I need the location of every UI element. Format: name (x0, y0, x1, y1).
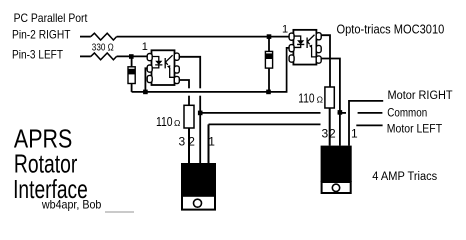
LED inside U2 (293, 36, 304, 47)
wire IC2 pin6 to resistor R2 (319, 35, 330, 87)
capacitor C1 top lead (131, 56, 133, 66)
triac Q2 body (321, 146, 352, 182)
gray underline (105, 211, 134, 213)
capacitor C2 bottom lead (268, 68, 270, 92)
svg-text:Motor LEFT: Motor LEFT (387, 123, 442, 135)
wire motor-right L (349, 101, 383, 146)
resistor 330ohm R-left zigzag (91, 53, 117, 60)
svg-text:PC Parallel Port: PC Parallel Port (14, 11, 88, 25)
svg-text:Rotator: Rotator (14, 151, 78, 179)
svg-text:Pin-3 LEFT: Pin-3 LEFT (12, 47, 64, 61)
LED inside U1 (152, 57, 163, 68)
resistor R2 110ohm body (325, 87, 334, 108)
svg-text:2: 2 (329, 127, 336, 141)
wire triac1 pin1 riser (208, 124, 210, 163)
svg-text:Motor RIGHT: Motor RIGHT (388, 90, 453, 102)
capacitor C1 bottom lead (131, 84, 133, 92)
capacitor C1 (128, 67, 135, 84)
svg-text:Common: Common (387, 108, 427, 120)
wire IC1 pin2 drop to bus (145, 68, 147, 92)
svg-text:1: 1 (282, 23, 288, 35)
svg-text:wb4apr, Bob: wb4apr, Bob (41, 198, 102, 212)
svg-text:Opto-triacs MOC3010: Opto-triacs MOC3010 (337, 23, 445, 37)
triac Q1 body (181, 163, 216, 196)
svg-text:APRS: APRS (14, 126, 72, 154)
capacitor C2 (265, 51, 272, 68)
wire IC2 pin4 to triac2 pin2 (319, 59, 340, 146)
wire net pin2-right to IC2 pin1 (117, 36, 290, 38)
triac element inside U1 (165, 55, 174, 77)
wire common line A right stub (338, 112, 347, 114)
wire common line A left segment (200, 112, 320, 114)
junction C1 to Pin-3 LEFT line (129, 54, 134, 59)
wire ground bus y=92 with IC2 pin2 riser (132, 48, 290, 92)
junction C2 to Pin-2 RIGHT line (267, 34, 272, 39)
svg-text:Pin-2 RIGHT: Pin-2 RIGHT (12, 28, 71, 42)
capacitor C2 top lead (268, 37, 270, 52)
svg-text:330 Ω: 330 Ω (92, 42, 114, 53)
junction common line at Q2 pin2 wire (338, 110, 343, 115)
wire motor-left label dash (356, 124, 382, 126)
resistor R1 110ohm body (184, 105, 194, 128)
opto-triac U1 MOC3010 (147, 50, 179, 85)
svg-text:3: 3 (322, 127, 329, 141)
svg-text:1: 1 (208, 135, 215, 149)
svg-text:110: 110 (156, 114, 173, 129)
wire common label dash (358, 112, 383, 114)
junction U1 pin2 to ground bus (143, 90, 148, 95)
svg-text:1: 1 (351, 127, 358, 141)
wire Pin-2 RIGHT lead (80, 36, 91, 38)
svg-text:110: 110 (298, 90, 314, 105)
triac element inside U2 (307, 35, 316, 57)
wire R2 to triac2 gate pin3 (329, 108, 331, 146)
svg-text:3: 3 (179, 135, 186, 149)
wire IC1 pin4 to resistor R1 (179, 80, 189, 105)
wire Pin-3 LEFT lead (80, 55, 91, 57)
junction C2 to ground bus (266, 90, 271, 95)
wire R1 to triac1 gate pin3 (188, 128, 190, 163)
triac Q2 tab (322, 182, 351, 193)
svg-text:1: 1 (142, 41, 148, 53)
svg-text:Ω: Ω (174, 118, 180, 128)
wire net pin3-left to IC1 pin1 (117, 55, 148, 57)
halo gaps where bus cuts verticals (187, 88, 203, 95)
wire motor-left line B (209, 123, 321, 125)
junction common line at Q1 pin2 wire (198, 111, 203, 116)
resistor 330ohm R-right zigzag (91, 33, 117, 40)
wire IC1 pin6 to triac1 pin2 (179, 57, 200, 163)
triac Q1 tab (182, 196, 215, 210)
opto-triac U2 MOC3010 (289, 30, 321, 65)
svg-text:4 AMP Triacs: 4 AMP Triacs (372, 171, 437, 183)
svg-text:2: 2 (188, 135, 195, 149)
svg-text:Ω: Ω (317, 94, 323, 104)
